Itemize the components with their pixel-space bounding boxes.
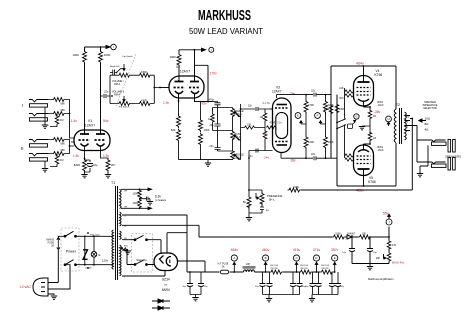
svg-text:12AX7: 12AX7 xyxy=(85,124,95,128)
svg-text:68K: 68K xyxy=(61,109,66,112)
svg-text:22n: 22n xyxy=(210,145,215,148)
svg-text:E: E xyxy=(334,256,336,260)
svg-text:21.5v: 21.5v xyxy=(263,101,271,105)
svg-text:5K-L: 5K-L xyxy=(269,198,275,202)
svg-text:25K: 25K xyxy=(376,257,381,260)
svg-text:22µ: 22µ xyxy=(93,163,98,167)
svg-text:82K: 82K xyxy=(171,128,176,132)
svg-text:Markhuss amplification: Markhuss amplification xyxy=(368,278,394,281)
svg-text:3A: 3A xyxy=(51,245,54,248)
svg-text:B: B xyxy=(265,256,267,260)
svg-text:to heaters: to heaters xyxy=(156,199,167,202)
svg-text:466v: 466v xyxy=(356,189,364,193)
svg-text:SD: SD xyxy=(124,238,127,240)
svg-text:95v: 95v xyxy=(202,102,208,106)
svg-text:220K: 220K xyxy=(324,108,330,111)
svg-text:C: C xyxy=(295,256,297,260)
svg-text:8Ω: 8Ω xyxy=(406,122,409,124)
svg-text:II: II xyxy=(21,146,24,151)
svg-text:4Ω: 4Ω xyxy=(406,127,409,129)
svg-text:100K: 100K xyxy=(169,55,176,59)
svg-text:820R: 820R xyxy=(74,163,80,167)
svg-text:1.4v: 1.4v xyxy=(71,119,78,123)
svg-text:464v: 464v xyxy=(231,248,239,252)
svg-text:100K: 100K xyxy=(72,53,79,57)
svg-text:415v: 415v xyxy=(293,248,301,252)
svg-text:JACK: JACK xyxy=(378,149,385,152)
svg-text:50W LEAD VARIANT: 50W LEAD VARIANT xyxy=(189,26,263,36)
svg-text:22n: 22n xyxy=(104,90,109,94)
svg-text:OH: OH xyxy=(124,191,128,193)
svg-text:-38v: -38v xyxy=(374,110,381,114)
svg-text:68K: 68K xyxy=(61,103,66,106)
svg-text:94v: 94v xyxy=(103,119,109,123)
svg-text:Power: Power xyxy=(66,250,77,254)
svg-text:250K-L: 250K-L xyxy=(234,113,243,116)
svg-text:470R: 470R xyxy=(141,71,147,74)
svg-text:1M: 1M xyxy=(60,119,63,122)
svg-text:100K: 100K xyxy=(104,53,111,57)
svg-text:2W 2W: 2W 2W xyxy=(321,268,329,270)
svg-text:22n: 22n xyxy=(311,90,316,93)
svg-text:12 vAC: 12 vAC xyxy=(20,285,32,289)
svg-text:1M: 1M xyxy=(208,118,211,121)
svg-text:47K: 47K xyxy=(392,244,397,247)
svg-text:5K6: 5K6 xyxy=(339,97,344,100)
svg-text:1M: 1M xyxy=(60,159,63,162)
svg-text:or: or xyxy=(164,283,167,287)
svg-text:470K: 470K xyxy=(308,103,314,107)
svg-text:Fat Switch: Fat Switch xyxy=(123,55,134,58)
svg-text:H.T. FUSE: H.T. FUSE xyxy=(218,264,229,266)
svg-text:100R: 100R xyxy=(133,203,139,205)
svg-text:220K: 220K xyxy=(339,108,345,111)
svg-text:10H: 10H xyxy=(246,264,251,266)
svg-text:V1: V1 xyxy=(88,119,92,123)
svg-text:460v: 460v xyxy=(262,248,270,252)
svg-text:120v: 120v xyxy=(102,259,109,263)
svg-text:10K: 10K xyxy=(362,233,367,236)
svg-text:MARKHUSS: MARKHUSS xyxy=(198,7,251,24)
svg-text:16Ω: 16Ω xyxy=(406,117,410,119)
svg-text:Fat Switch: Fat Switch xyxy=(119,106,130,109)
svg-text:KT66: KT66 xyxy=(375,73,383,77)
svg-text:1R: 1R xyxy=(373,137,376,140)
svg-text:100K: 100K xyxy=(308,140,314,144)
svg-text:1N4007: 1N4007 xyxy=(347,233,356,236)
svg-text:16Ω: 16Ω xyxy=(425,117,431,121)
svg-text:RM-A: RM-A xyxy=(114,83,121,86)
svg-text:470p: 470p xyxy=(209,99,215,102)
svg-text:68K: 68K xyxy=(61,149,66,152)
svg-text:2W 2W: 2W 2W xyxy=(300,268,308,270)
svg-text:28v: 28v xyxy=(291,159,297,163)
svg-text:GZ34: GZ34 xyxy=(162,278,170,282)
svg-text:5K: 5K xyxy=(243,200,246,204)
svg-text:SPEAKERS: SPEAKERS xyxy=(445,155,461,159)
svg-text:12AX7: 12AX7 xyxy=(272,90,282,94)
svg-text:357v: 357v xyxy=(331,248,339,252)
svg-text:100K: 100K xyxy=(293,185,299,189)
svg-text:JACK: JACK xyxy=(378,104,385,107)
svg-text:10K: 10K xyxy=(339,87,344,90)
svg-text:H: H xyxy=(387,117,389,121)
svg-text:100R: 100R xyxy=(133,194,139,196)
svg-text:F: F xyxy=(317,114,319,118)
svg-text:464v: 464v xyxy=(356,62,364,66)
svg-text:KT66: KT66 xyxy=(368,180,376,184)
svg-text:1.5v: 1.5v xyxy=(73,154,79,158)
svg-text:22n: 22n xyxy=(311,153,316,156)
svg-text:22v: 22v xyxy=(277,121,282,125)
svg-text:T2: T2 xyxy=(396,103,400,107)
svg-text:.1µ: .1µ xyxy=(265,209,269,212)
svg-text:A: A xyxy=(233,256,235,260)
svg-text:BIAS 40v: BIAS 40v xyxy=(392,261,405,265)
svg-text:100K: 100K xyxy=(204,128,210,132)
svg-text:OH: OH xyxy=(124,207,128,209)
svg-text:68K: 68K xyxy=(61,143,66,146)
svg-text:SELECTOR: SELECTOR xyxy=(423,107,437,110)
svg-text:470R: 470R xyxy=(141,99,147,102)
svg-text:10K 10K: 10K 10K xyxy=(300,265,309,267)
svg-text:E: E xyxy=(99,253,101,257)
svg-text:24v: 24v xyxy=(264,156,269,160)
svg-text:2K7: 2K7 xyxy=(111,163,116,167)
svg-text:1M-A: 1M-A xyxy=(235,136,241,139)
svg-text:79v: 79v xyxy=(290,92,296,96)
svg-text:55v: 55v xyxy=(383,212,389,216)
svg-text:1R: 1R xyxy=(373,115,376,118)
svg-text:D: D xyxy=(315,256,317,260)
svg-text:170v: 170v xyxy=(210,72,218,76)
svg-text:25K-L: 25K-L xyxy=(235,157,242,160)
svg-text:374v: 374v xyxy=(313,248,321,252)
svg-text:12AX7: 12AX7 xyxy=(180,70,190,74)
svg-text:I: I xyxy=(22,103,23,108)
svg-text:T1: T1 xyxy=(111,181,115,185)
svg-text:22n: 22n xyxy=(248,105,253,108)
svg-text:10K: 10K xyxy=(247,124,252,127)
svg-text:5AR4: 5AR4 xyxy=(162,288,170,292)
svg-text:22n: 22n xyxy=(210,124,215,127)
svg-text:10K 10K: 10K 10K xyxy=(270,265,279,267)
svg-text:1.5v: 1.5v xyxy=(103,154,109,158)
svg-text:2W 2W: 2W 2W xyxy=(270,268,278,270)
svg-text:Pilot Light: Pilot Light xyxy=(90,233,100,236)
svg-text:10K 10K: 10K 10K xyxy=(321,265,330,267)
svg-text:3A: 3A xyxy=(222,266,225,269)
svg-text:100K: 100K xyxy=(335,233,341,236)
svg-text:1M: 1M xyxy=(260,116,263,119)
svg-text:24v: 24v xyxy=(263,132,268,136)
svg-text:V2: V2 xyxy=(176,65,180,69)
svg-text:1.9v: 1.9v xyxy=(163,101,169,105)
svg-text:E: E xyxy=(297,114,299,118)
